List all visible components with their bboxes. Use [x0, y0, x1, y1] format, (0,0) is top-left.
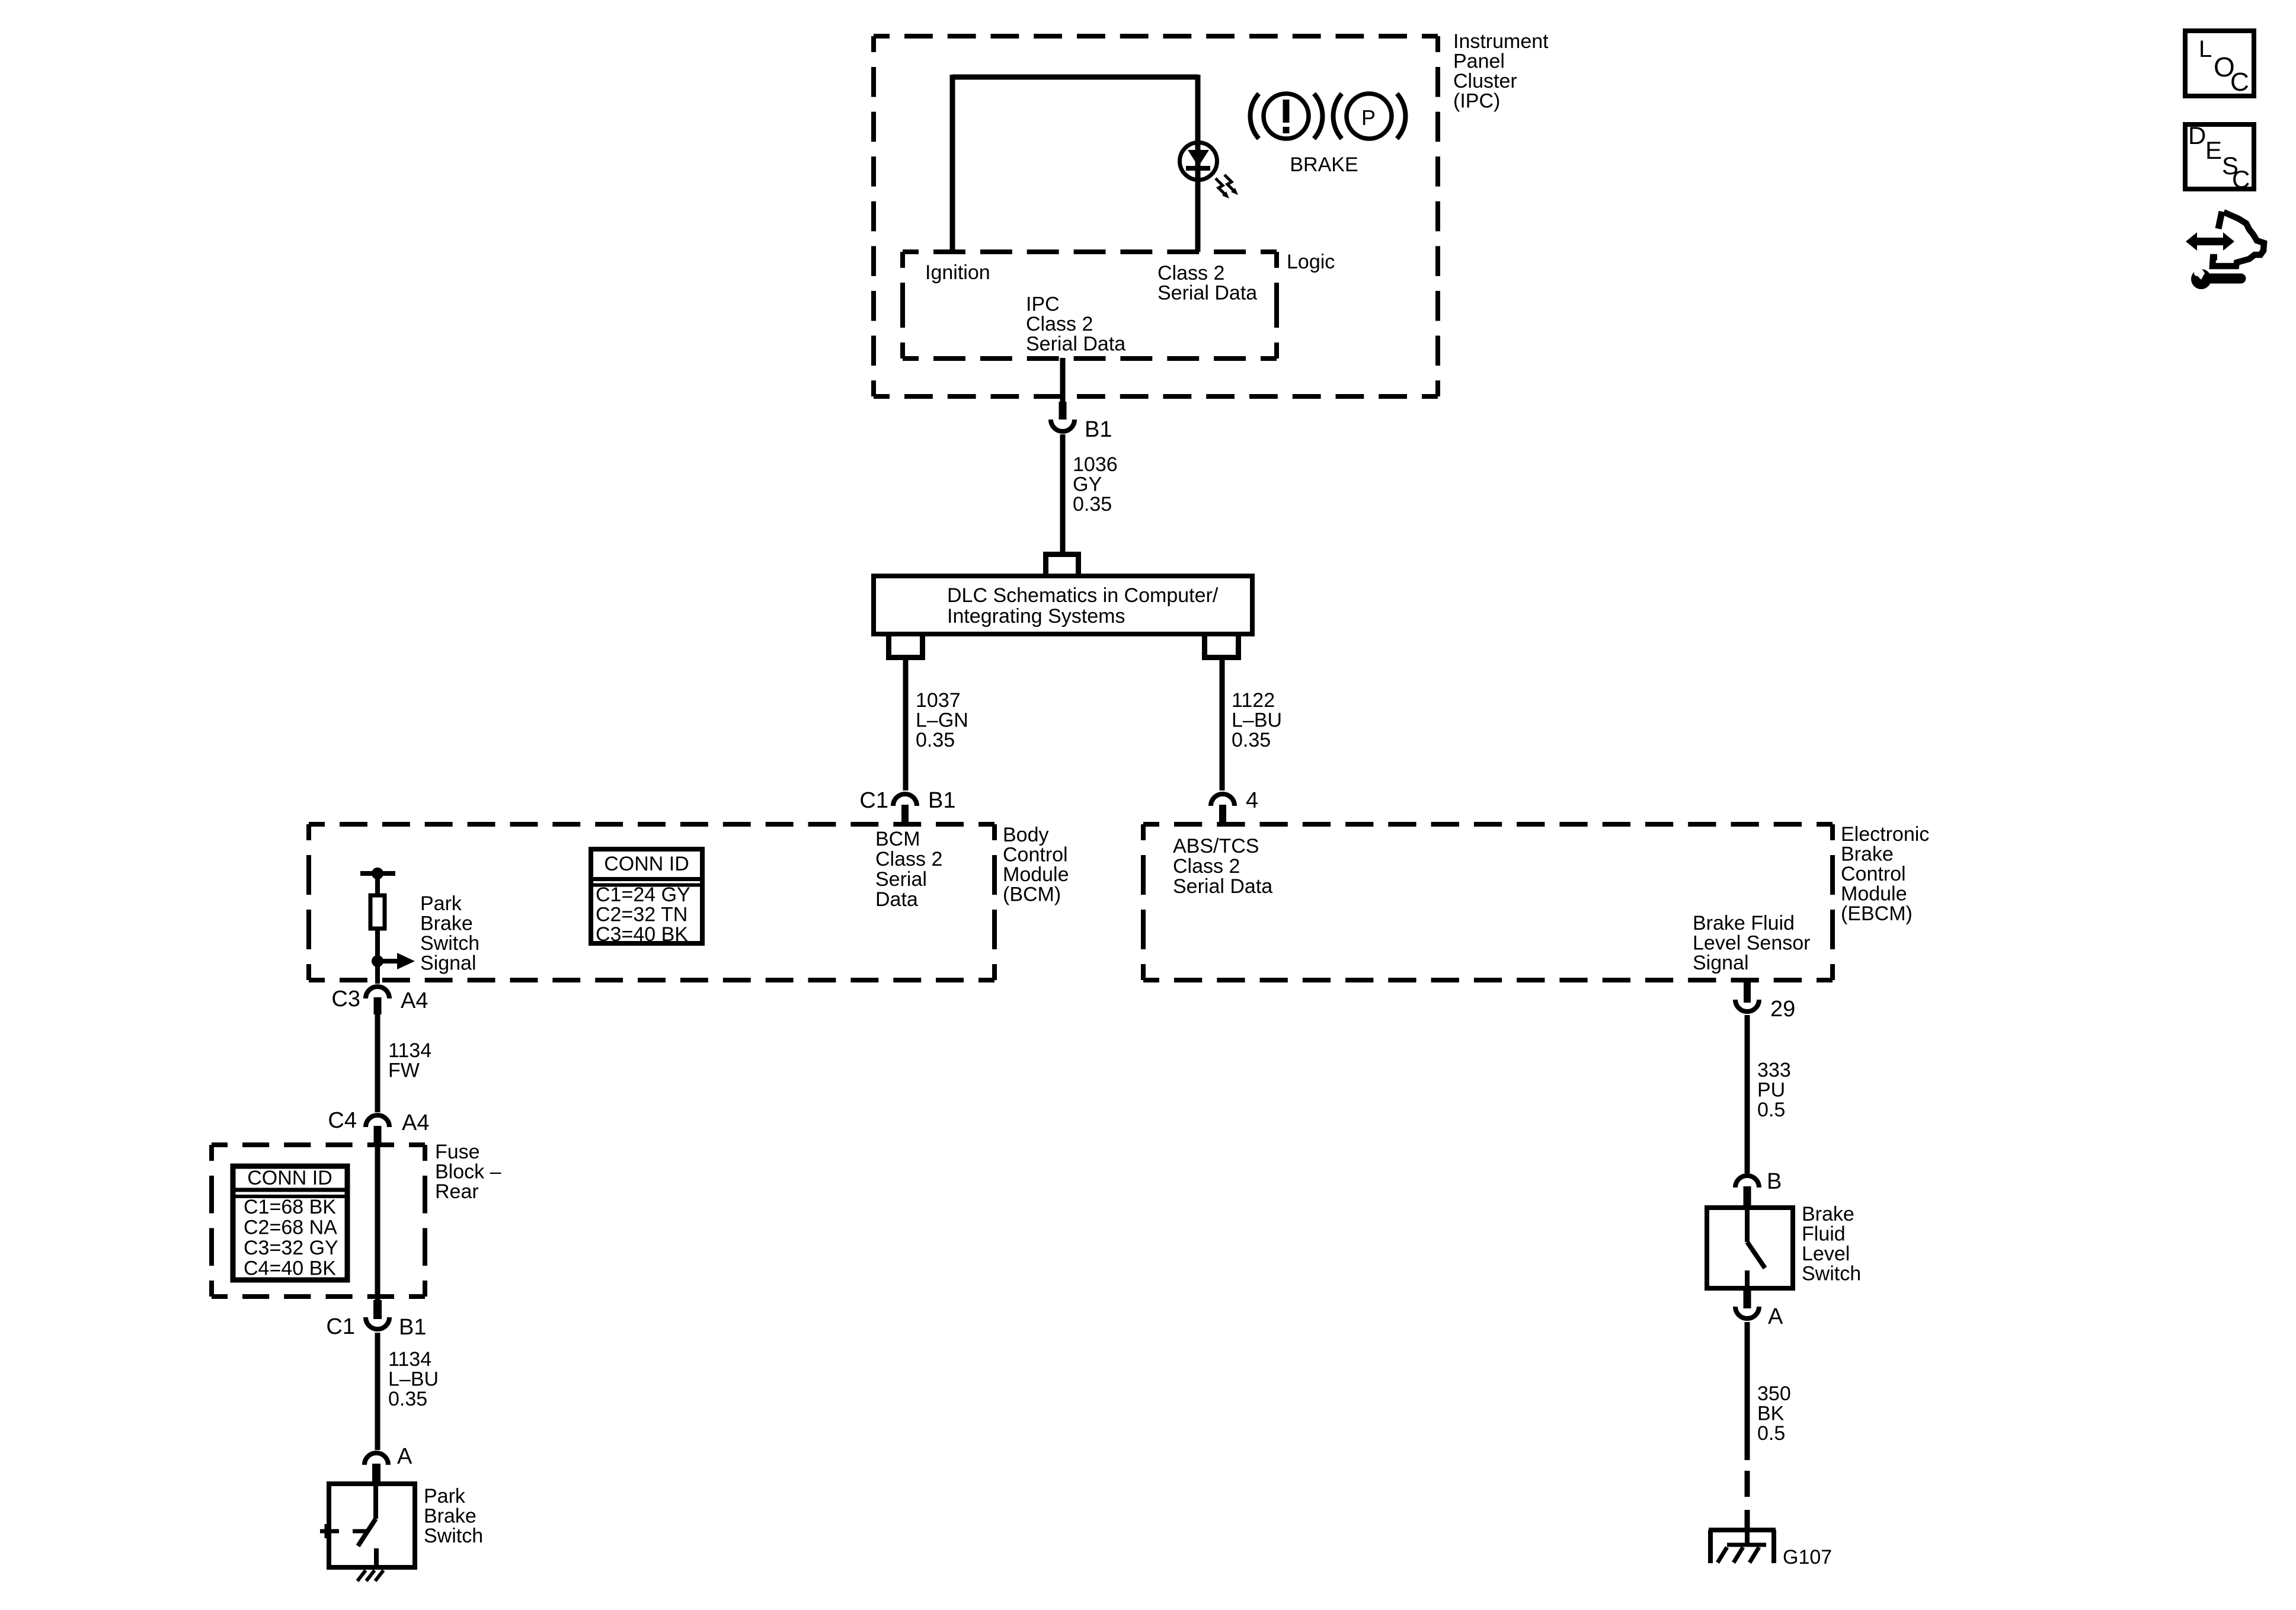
svg-text:Class 2: Class 2: [1026, 313, 1093, 335]
svg-text:Park: Park: [424, 1485, 466, 1507]
svg-text:Level Sensor: Level Sensor: [1693, 932, 1810, 955]
svg-text:C2=32 TN: C2=32 TN: [596, 904, 687, 926]
svg-text:C3=32 GY: C3=32 GY: [244, 1237, 338, 1259]
svg-text:Block –: Block –: [435, 1161, 501, 1183]
svg-text:Switch: Switch: [1802, 1263, 1861, 1285]
svg-text:PU: PU: [1757, 1079, 1785, 1102]
svg-text:Park: Park: [420, 892, 462, 915]
svg-text:Rear: Rear: [435, 1180, 479, 1203]
svg-text:Serial Data: Serial Data: [1026, 333, 1125, 356]
svg-text:1037: 1037: [916, 689, 961, 712]
svg-text:A4: A4: [401, 988, 428, 1013]
svg-text:Cluster: Cluster: [1453, 70, 1517, 92]
svg-text:Serial: Serial: [875, 868, 927, 891]
svg-text:Data: Data: [875, 888, 918, 911]
svg-text:Panel: Panel: [1453, 50, 1505, 73]
svg-text:DLC Schematics in Computer/: DLC Schematics in Computer/: [947, 584, 1219, 607]
svg-text:A4: A4: [402, 1110, 429, 1135]
svg-text:BCM: BCM: [875, 828, 920, 850]
svg-text:Level: Level: [1802, 1243, 1850, 1265]
svg-text:0.35: 0.35: [916, 729, 955, 751]
svg-text:L: L: [2199, 36, 2212, 62]
svg-text:Signal: Signal: [1693, 952, 1749, 974]
svg-text:Class 2: Class 2: [1173, 855, 1240, 878]
svg-text:L–GN: L–GN: [916, 709, 968, 732]
svg-text:C4=40 BK: C4=40 BK: [244, 1257, 336, 1280]
svg-text:FW: FW: [388, 1060, 420, 1082]
svg-text:A: A: [1768, 1304, 1783, 1329]
svg-text:0.35: 0.35: [1073, 493, 1112, 516]
svg-text:Instrument: Instrument: [1453, 30, 1549, 53]
svg-text:GY: GY: [1073, 473, 1102, 496]
svg-text:Electronic: Electronic: [1841, 823, 1929, 846]
svg-text:G107: G107: [1783, 1546, 1832, 1569]
svg-text:C1=24 GY: C1=24 GY: [596, 884, 690, 906]
svg-text:D: D: [2188, 121, 2206, 149]
svg-text:1036: 1036: [1073, 453, 1118, 476]
svg-text:29: 29: [1770, 997, 1795, 1022]
svg-text:BK: BK: [1757, 1403, 1785, 1425]
svg-text:Ignition: Ignition: [925, 261, 990, 284]
svg-text:C1=68 BK: C1=68 BK: [244, 1196, 336, 1218]
svg-text:Signal: Signal: [420, 952, 477, 975]
svg-text:1134: 1134: [388, 1039, 431, 1062]
svg-text:Brake: Brake: [1802, 1203, 1854, 1225]
svg-text:B1: B1: [399, 1315, 426, 1340]
svg-text:IPC: IPC: [1026, 293, 1060, 316]
svg-text:0.35: 0.35: [388, 1388, 427, 1410]
svg-text:C4: C4: [328, 1108, 357, 1133]
svg-text:C3=40 BK: C3=40 BK: [596, 923, 688, 946]
svg-text:(EBCM): (EBCM): [1841, 902, 1913, 925]
svg-text:Fuse: Fuse: [435, 1141, 480, 1163]
svg-text:C1: C1: [859, 788, 888, 813]
svg-text:1134: 1134: [388, 1348, 431, 1371]
svg-text:Serial Data: Serial Data: [1157, 282, 1257, 305]
svg-text:Brake: Brake: [1841, 843, 1894, 866]
svg-text:Brake: Brake: [424, 1505, 477, 1528]
svg-text:333: 333: [1757, 1059, 1791, 1081]
svg-text:Module: Module: [1003, 863, 1069, 886]
svg-text:P: P: [1361, 105, 1376, 130]
svg-text:E: E: [2205, 136, 2222, 164]
svg-text:Class 2: Class 2: [1157, 262, 1224, 284]
svg-text:350: 350: [1757, 1382, 1791, 1405]
svg-text:B1: B1: [1085, 417, 1112, 442]
svg-text:(IPC): (IPC): [1453, 90, 1500, 113]
svg-text:B1: B1: [928, 788, 955, 813]
svg-text:0.35: 0.35: [1232, 729, 1271, 751]
svg-text:BRAKE: BRAKE: [1290, 153, 1358, 176]
svg-text:A: A: [397, 1444, 412, 1469]
svg-text:C1: C1: [326, 1314, 355, 1339]
svg-text:C3: C3: [331, 987, 360, 1012]
svg-text:Switch: Switch: [424, 1525, 483, 1547]
svg-text:1122: 1122: [1232, 689, 1275, 712]
svg-text:CONN ID: CONN ID: [247, 1167, 332, 1189]
svg-text:Integrating Systems: Integrating Systems: [947, 605, 1125, 628]
svg-text:ABS/TCS: ABS/TCS: [1173, 835, 1259, 857]
svg-text:4: 4: [1246, 788, 1258, 813]
svg-text:L–BU: L–BU: [1232, 709, 1282, 732]
svg-text:B: B: [1767, 1169, 1782, 1194]
svg-text:L–BU: L–BU: [388, 1368, 439, 1391]
svg-text:Brake Fluid: Brake Fluid: [1693, 912, 1795, 934]
svg-text:0.5: 0.5: [1757, 1099, 1785, 1121]
svg-text:C2=68 NA: C2=68 NA: [244, 1217, 337, 1239]
svg-text:C: C: [2232, 165, 2250, 193]
svg-text:Fluid: Fluid: [1802, 1223, 1846, 1246]
svg-text:CONN ID: CONN ID: [604, 853, 689, 875]
svg-text:Module: Module: [1841, 883, 1907, 905]
svg-text:0.5: 0.5: [1757, 1422, 1785, 1445]
svg-text:(BCM): (BCM): [1003, 884, 1061, 906]
svg-text:Body: Body: [1003, 824, 1049, 846]
svg-text:Serial Data: Serial Data: [1173, 875, 1272, 898]
svg-text:C: C: [2230, 68, 2249, 97]
svg-text:Logic: Logic: [1287, 251, 1335, 273]
svg-text:Class 2: Class 2: [875, 848, 942, 870]
svg-text:Switch: Switch: [420, 932, 479, 955]
svg-text:Control: Control: [1003, 844, 1068, 866]
svg-text:Control: Control: [1841, 863, 1906, 885]
svg-text:Brake: Brake: [420, 913, 473, 935]
